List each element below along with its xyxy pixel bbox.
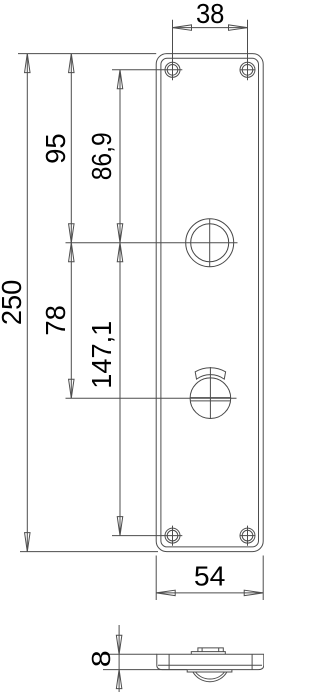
dim 8 extension bottom [103,669,187,671]
thumbturn horizontal centerline (extension of dim 78) [66,397,237,399]
screw hole bottom-right [240,528,255,543]
arrow 8 top (outside) [116,635,122,654]
arrow 86,9 bottom [117,224,123,243]
thumbturn wing (annular sector) [195,368,225,379]
label 8 [86,650,115,667]
screw hole top-right [240,62,255,77]
svg-text:8: 8 [86,650,115,667]
label 147,1 [86,321,117,389]
handle hole inner circle [191,224,229,262]
dim line 95 [70,54,72,243]
arrow 250 bottom [25,533,31,552]
label 95 [40,133,71,164]
dim line 86,9 [119,70,121,243]
dim line 54 [156,592,263,594]
label 78 [40,305,71,336]
dim line 250 [26,54,28,552]
side view slab outline [157,654,264,669]
arrow 86,9 top [117,70,123,89]
dim 8 extension top [103,653,157,655]
extension line plate bottom (for dim 250) [20,551,158,553]
extension line plate top (for dims 250 / 95) [18,53,156,55]
arrow 147,1 bottom [117,517,123,536]
side view knob inner vertical left [201,648,203,652]
side view step line [158,664,262,666]
plate outer outline [156,54,263,552]
thumbturn slot top line [190,397,230,399]
svg-text:54: 54 [194,561,226,592]
side view dome inner arc [196,672,225,679]
centerline horizontal bottom-right screw [240,535,256,537]
centerline horizontal top-left screw (extension of dim 86,9) [112,69,182,71]
arrow 8 bottom (outside) [116,670,122,689]
side view back flange [187,670,232,672]
svg-text:95: 95 [40,133,71,164]
centerline vertical top-left screw (extension of dim 38) [172,20,174,80]
svg-text:86,9: 86,9 [86,132,117,180]
dim 54 extension right [262,556,264,601]
dim line 147,1 [119,243,121,536]
arrow 250 top [25,54,31,73]
dim line 8 [118,625,120,692]
arrow 147,1 top [117,243,123,262]
handle hole outer circle [186,219,234,267]
centerline vertical top-right screw (extension of dim 38) [247,20,249,80]
dim 54 extension left [155,556,157,601]
thumbturn slot bottom line [190,400,230,402]
arrow 54 right [244,590,263,596]
thumbturn vertical centerline [209,367,211,419]
thumbturn circle [190,378,231,419]
side view knob [198,648,223,652]
side view knob inner vertical right [218,648,220,652]
centerline vertical bottom-left screw [172,526,174,546]
dim line 78 [70,243,72,399]
arrow 95 bottom [69,224,75,243]
arrow 38 left [173,25,192,31]
label 250 [0,280,27,326]
svg-text:250: 250 [0,280,27,326]
side view dome outer arc [193,672,227,682]
side view turn flange top [191,652,225,655]
centerline horizontal top-right screw [240,69,256,71]
label 86,9 [86,132,117,180]
centerline vertical bottom-right screw [247,526,249,546]
arrow 78 bottom [69,379,75,398]
centerline horizontal bottom-left screw (extension of dim 147,1) [112,535,182,537]
side view inner vertical right [251,654,253,669]
arrow 38 right [229,25,248,31]
svg-text:38: 38 [196,0,225,29]
handle hole horizontal centerline (extension of dims 95 / 86,9) [66,242,238,244]
dim line 38 [173,27,248,29]
screw hole top-left [165,62,180,77]
side view inner vertical left [168,654,170,669]
handle hole vertical centerline [209,219,211,267]
arrow 78 top [69,243,75,262]
plate inner outline [161,58,259,547]
arrow 54 left [156,590,175,596]
svg-text:78: 78 [40,305,71,336]
screw hole bottom-left [165,528,180,543]
svg-text:147,1: 147,1 [86,321,117,389]
arrow 95 top [69,54,75,73]
